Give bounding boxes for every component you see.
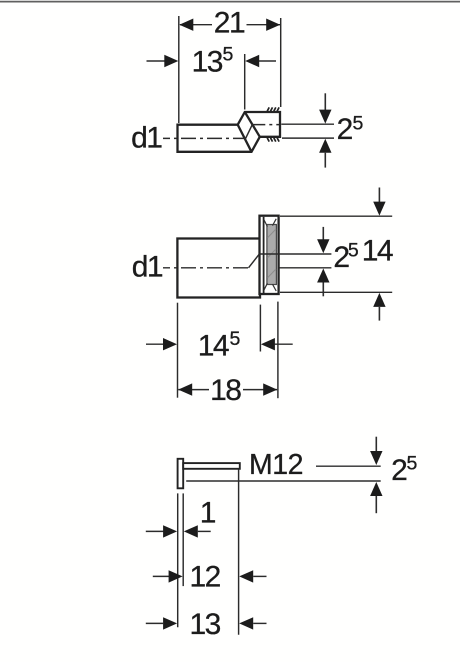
gasket chamfer bottom-right	[273, 284, 277, 291]
dimension 1 arrow left	[163, 525, 177, 537]
dimension 2.5 fig2 arrow down	[322, 227, 324, 240]
svg-text:5: 5	[230, 328, 241, 350]
dimension 12 arrow left	[169, 570, 183, 582]
dimension 2.5 fig3 arrow down	[375, 437, 377, 452]
gasket chamfer top-right	[273, 219, 277, 226]
offset connector body outline	[178, 112, 281, 152]
extension line 14 top	[280, 215, 392, 217]
ring axis line	[259, 253, 331, 255]
svg-text:13: 13	[192, 46, 223, 79]
centerline tube fig2	[163, 267, 249, 269]
gasket chamfer bottom-left	[264, 283, 268, 290]
thread hatching top	[267, 107, 279, 111]
svg-text:14: 14	[198, 329, 229, 362]
tube axis extension right	[280, 267, 332, 269]
reference line lower (2.5 offset)	[186, 480, 381, 482]
axis extension line top (2.5 offset)	[281, 123, 334, 125]
dimension 2.5 fig2 arrow up	[317, 269, 329, 283]
dimension 2.5 arrow up	[319, 139, 331, 153]
svg-text:M12: M12	[249, 449, 303, 481]
bolt rod	[183, 463, 240, 469]
dimension 13.5 tails	[147, 60, 165, 62]
dimension 18 arrow right	[263, 383, 277, 395]
dimension 12 arrow right	[239, 570, 253, 582]
svg-text:1: 1	[200, 497, 216, 530]
miter edge lower	[238, 125, 252, 152]
sleeve tube body	[177, 239, 260, 298]
dimension 14 arrow up	[373, 293, 385, 307]
dimension 14 arrow down	[378, 188, 380, 203]
dimension 1 tails	[146, 530, 164, 532]
svg-text:5: 5	[353, 112, 364, 134]
dimension 13.5 arrow left	[164, 55, 178, 67]
gasket hatch band	[267, 225, 277, 285]
dimension 21 line segments	[180, 24, 212, 26]
top border line	[0, 1, 460, 3]
extension line right (dim 21)	[280, 18, 282, 107]
dimension 14.5 tails	[146, 343, 164, 345]
extension line 14 bottom	[280, 291, 392, 293]
dimension 18 arrow left	[178, 383, 192, 395]
extension line head left	[177, 493, 179, 627]
svg-text:21: 21	[214, 6, 245, 39]
dimension 13 arrow left	[163, 617, 177, 629]
svg-text:5: 5	[348, 240, 359, 262]
dimension 21 arrow left	[179, 19, 193, 31]
svg-text:14: 14	[362, 235, 393, 268]
dimension 2.5 fig3 arrow up	[370, 482, 382, 496]
extension line middle (dim 13.5)	[244, 54, 246, 110]
flange ring outer	[260, 216, 279, 294]
dimension 1 arrow right	[184, 525, 198, 537]
centerline jog	[246, 125, 253, 139]
svg-text:13: 13	[190, 608, 221, 641]
extension line head right	[182, 493, 184, 586]
svg-text:d1: d1	[132, 251, 163, 284]
dimension 18 line segments	[178, 389, 209, 391]
dimension 13.5 arrow right	[245, 55, 259, 67]
extension line below middle (flange face)	[259, 305, 261, 352]
svg-text:2: 2	[337, 113, 353, 146]
dimension 14.5 arrow left	[163, 338, 177, 350]
dimension 21 arrow right	[266, 19, 280, 31]
bolt head	[178, 459, 184, 489]
miter edge upper	[245, 112, 260, 137]
extension line rod end	[238, 470, 240, 635]
svg-text:5: 5	[407, 452, 418, 474]
centerline left tube	[163, 137, 246, 139]
flange inner edge line	[263, 217, 265, 293]
dimension 13 arrow right	[239, 617, 253, 629]
svg-text:d1: d1	[131, 122, 162, 155]
axis extension line bottom (2.5 offset)	[282, 137, 334, 139]
svg-text:2: 2	[391, 454, 407, 487]
gasket chamfer top-left	[264, 220, 268, 227]
svg-text:18: 18	[210, 374, 241, 407]
dimension 13 tails	[146, 622, 163, 624]
centerline jog fig2	[249, 254, 260, 268]
rod axis extension	[316, 465, 381, 467]
centerline right section	[252, 124, 279, 126]
svg-text:12: 12	[190, 560, 221, 593]
dimension 14.5 arrow right	[261, 338, 275, 350]
thread hatching bottom	[267, 138, 279, 142]
dimension 2.5 arrow down	[324, 93, 326, 110]
extension line left (dim 21 / 13.5)	[178, 16, 180, 123]
extension line below left	[177, 303, 179, 398]
svg-text:5: 5	[223, 44, 234, 66]
dimension 12 tails	[153, 575, 169, 577]
extension line below right (flange back)	[277, 302, 279, 399]
